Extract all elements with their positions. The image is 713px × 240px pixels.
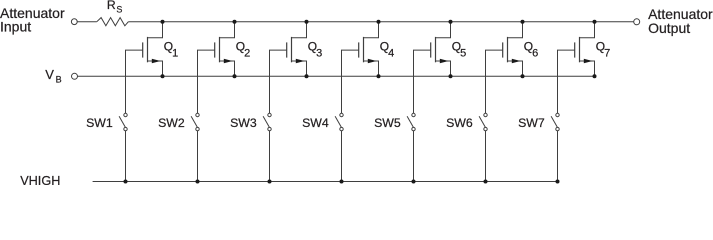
svg-text:Q6: Q6 [524, 40, 538, 60]
junction dot: Q3 drain on top rail [305, 20, 309, 24]
svg-text:Q5: Q5 [452, 40, 466, 60]
transistor Q1 [143, 22, 163, 77]
wire: switch SW6 to VHIGH rail [485, 131, 487, 182]
svg-text:Q7: Q7 [596, 40, 610, 60]
transistor Q5 [431, 22, 451, 77]
terminal: Attenuator Output [634, 19, 640, 25]
junction dot: Q7 source on VB rail [593, 74, 597, 78]
junction dot: Q4 source on VB rail [377, 74, 381, 78]
wire: VHIGH rail [93, 181, 558, 183]
junction dot: SW2 on VHIGH rail [196, 180, 200, 184]
junction dot: Q4 drain on top rail [377, 20, 381, 24]
wire: gate of Q7 to switch SW7 [558, 50, 575, 113]
junction dot: Q6 drain on top rail [521, 20, 525, 24]
wire: input terminal to resistor RS [77, 21, 96, 23]
terminal: VB [72, 73, 78, 79]
junction dot: Q1 source on VB rail [161, 74, 165, 78]
svg-text:VB: VB [45, 67, 61, 85]
svg-text:Q2: Q2 [236, 40, 250, 60]
switch SW2 [191, 113, 199, 131]
svg-text:Input: Input [0, 19, 31, 35]
wire: gate of Q4 to switch SW4 [342, 50, 359, 113]
svg-text:SW5: SW5 [374, 116, 401, 130]
wire: gate of Q1 to switch SW1 [126, 50, 143, 113]
junction dot: SW3 on VHIGH rail [268, 180, 272, 184]
switch SW7 [551, 113, 559, 131]
switch SW6 [479, 113, 487, 131]
wire: switch SW3 to VHIGH rail [269, 131, 271, 182]
svg-text:Q1: Q1 [164, 40, 178, 60]
junction dot: Q5 drain on top rail [449, 20, 453, 24]
wire: gate of Q2 to switch SW2 [198, 50, 215, 113]
svg-text:SW4: SW4 [302, 116, 329, 130]
transistor Q3 [287, 22, 307, 77]
transistor Q6 [503, 22, 523, 77]
junction dot: Q2 source on VB rail [233, 74, 237, 78]
svg-text:RS: RS [107, 0, 122, 15]
wire: gate of Q6 to switch SW6 [486, 50, 503, 113]
svg-text:SW7: SW7 [518, 116, 545, 130]
wire: gate of Q3 to switch SW3 [270, 50, 287, 113]
svg-text:SW3: SW3 [230, 116, 257, 130]
wire: switch SW5 to VHIGH rail [413, 131, 415, 182]
transistor Q2 [215, 22, 235, 77]
junction dot: SW6 on VHIGH rail [484, 180, 488, 184]
terminal: Attenuator Input [71, 19, 77, 25]
svg-text:Q3: Q3 [308, 40, 322, 60]
junction dot: Q1 drain on top rail [161, 20, 165, 24]
switch SW5 [407, 113, 415, 131]
svg-text:Q4: Q4 [380, 40, 394, 60]
switch SW3 [263, 113, 271, 131]
junction dot: Q5 source on VB rail [449, 74, 453, 78]
junction dot: SW5 on VHIGH rail [412, 180, 416, 184]
wire: switch SW1 to VHIGH rail [125, 131, 127, 182]
wire: switch SW7 to VHIGH rail [557, 131, 559, 182]
svg-text:SW1: SW1 [86, 116, 113, 130]
transistor Q7 [575, 22, 595, 77]
wire: gate of Q5 to switch SW5 [414, 50, 431, 113]
svg-text:SW6: SW6 [446, 116, 473, 130]
svg-text:VHIGH: VHIGH [20, 174, 60, 185]
wire: top rail from RS to output terminal [128, 21, 633, 23]
wire: switch SW2 to VHIGH rail [197, 131, 199, 182]
junction dot: SW1 on VHIGH rail [124, 180, 128, 184]
junction dot: SW4 on VHIGH rail [340, 180, 344, 184]
switch SW1 [119, 113, 127, 131]
resistor RS [97, 18, 129, 26]
wire: switch SW4 to VHIGH rail [341, 131, 343, 182]
switch SW4 [335, 113, 343, 131]
junction dot: Q2 drain on top rail [233, 20, 237, 24]
svg-text:Output: Output [648, 20, 690, 36]
svg-text:SW2: SW2 [158, 116, 185, 130]
transistor Q4 [359, 22, 379, 77]
junction dot: Q7 drain on top rail [593, 20, 597, 24]
junction dot: Q3 source on VB rail [305, 74, 309, 78]
junction dot: Q6 source on VB rail [521, 74, 525, 78]
junction dot: SW7 on VHIGH rail [556, 180, 560, 184]
wire: VB rail [78, 75, 595, 77]
